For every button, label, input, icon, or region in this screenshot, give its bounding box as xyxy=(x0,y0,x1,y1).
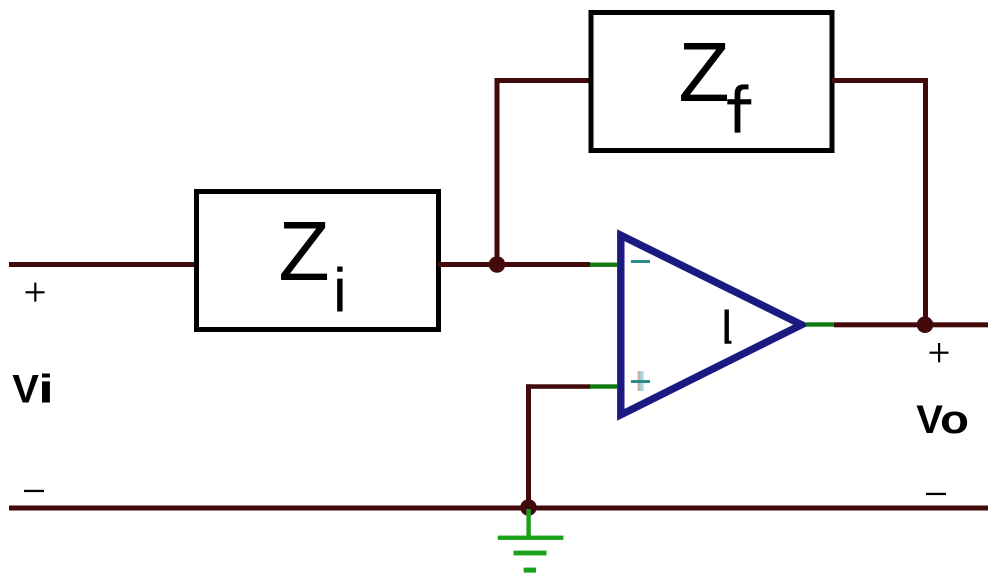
non-inverting wire horizontal xyxy=(526,384,591,389)
op-amp gain label l xyxy=(725,310,732,344)
output wire xyxy=(834,322,988,327)
plus label at Vo xyxy=(930,343,949,362)
non-inverting wire vertical down to ground rail xyxy=(526,384,531,507)
minus sign inverting input xyxy=(631,260,650,263)
svg-text:i: i xyxy=(333,257,347,326)
vertical wire down to output node xyxy=(923,78,928,326)
ground junction dot xyxy=(520,499,537,516)
green pin non-inverting input xyxy=(590,384,617,388)
svg-text:o: o xyxy=(940,398,969,442)
green pin inverting input xyxy=(590,263,617,267)
ground symbol xyxy=(498,509,564,573)
wire Zi to node A xyxy=(438,262,497,267)
wire to Zf left xyxy=(495,78,591,83)
bottom rail wire xyxy=(9,506,988,511)
wire node A to inverting pin xyxy=(497,262,590,267)
node A junction dot xyxy=(489,256,506,273)
minus label bottom left xyxy=(24,490,44,492)
wire Zf right xyxy=(832,78,928,83)
vertical wire node A up to Zf xyxy=(495,78,500,267)
output node junction dot xyxy=(917,316,934,333)
svg-text:V: V xyxy=(12,368,39,412)
op-amp U1 body xyxy=(621,235,802,415)
plus sign non-inverting input xyxy=(631,371,650,391)
impedance Zi box xyxy=(197,192,439,330)
green output pin xyxy=(806,322,834,326)
svg-text:Z: Z xyxy=(678,25,729,119)
plus label at Vi xyxy=(26,283,45,302)
wire input left xyxy=(9,262,197,267)
svg-text:Z: Z xyxy=(278,204,329,298)
impedance Zf box xyxy=(591,13,832,151)
minus label bottom right xyxy=(926,493,946,495)
svg-text:i: i xyxy=(38,368,54,412)
